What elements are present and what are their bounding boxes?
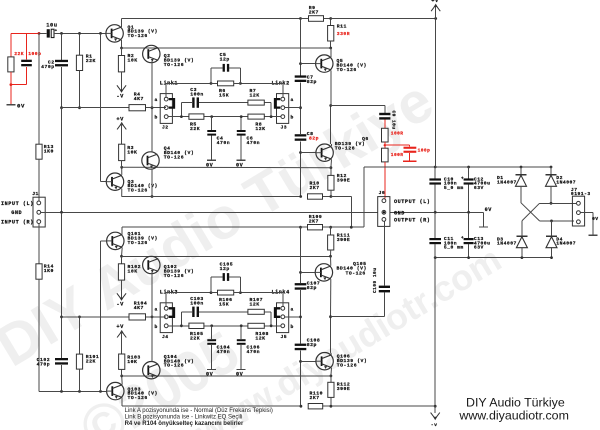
node R104 c102 tap [60,316,63,319]
capacitor C5 12p [211,52,240,83]
wire c3 left drop [180,103,182,117]
wire J1 riser top [38,33,40,144]
svg-text:0V: 0V [17,102,25,109]
svg-text:-V: -V [116,302,124,308]
capacitor C4 470n [207,117,230,160]
resistor R5 22K [189,114,204,132]
node r7 tap [270,324,273,327]
svg-text:1N4007: 1N4007 [497,179,517,185]
link jumper right [275,308,280,317]
node R1 bottom [78,106,81,109]
node J3 mid tap [299,106,302,109]
svg-text:470p: 470p [37,361,51,367]
svg-text:10K: 10K [127,359,137,365]
wire R110 rail [122,405,435,407]
wire c3 left drop [180,312,182,326]
text link label L [160,290,178,296]
svg-text:4K7: 4K7 [134,305,144,311]
wire Q5 collector [330,48,332,57]
node -V C13 [467,256,470,259]
node r5 rail c3tap [180,115,183,118]
wire Q6 collector [331,144,333,146]
wire riser to Q101 [101,241,107,392]
wire R10 rail to link [331,196,351,198]
svg-text:390E: 390E [337,386,351,392]
svg-text:1N4007: 1N4007 [556,179,576,185]
wire Q3 collector [121,167,123,175]
transistor Q3 BD140 [106,173,158,194]
svg-text:100n: 100n [190,301,204,307]
svg-text:R4 ve R104 önyükselteç kazancı: R4 ve R104 önyükselteç kazancını belirle… [125,421,244,427]
node R12 bottom junction [330,195,333,198]
svg-text:TO-126: TO-126 [128,33,148,39]
resistor R10 2K7 [308,180,323,199]
wire Q3e corner [121,196,123,198]
wire r7 right drop [264,312,271,326]
svg-text:+: + [461,176,464,181]
svg-text:+V: +V [116,116,124,122]
svg-text:J5: J5 [281,334,288,340]
node J5 mid tap [299,316,302,319]
wire R11 bottom [330,41,332,48]
ground 0V (input filter) [7,102,25,109]
svg-text:TO-126: TO-126 [128,240,148,246]
wire +V mid rail [364,166,551,168]
wire Q6 emitter [330,159,333,167]
node R104 r101 tap [78,316,81,319]
transistor Q106 BD139 [316,353,367,370]
svg-text:12K: 12K [250,92,260,98]
resistor 22K (red mod) [8,51,24,72]
capacitor C9 10u [379,111,396,130]
ground 0V psu [479,207,492,227]
wire C9 link [331,106,385,113]
svg-text:a: a [155,307,158,312]
svg-text:10u: 10u [46,22,57,28]
capacitor C107 82p [295,280,321,291]
node +V C10 [434,166,437,169]
wire red between 100R [384,142,386,148]
wire bridge ac1 [522,202,552,236]
wire bridge ac2 [521,203,574,236]
wire +V top rail right [331,18,436,20]
wire +V link drop [350,197,352,228]
transistor Q6 BD139 [316,136,369,162]
ground 0V c4 [206,370,216,378]
resistor R107 12K [248,297,264,314]
resistor R6 15K [211,81,240,98]
wire input L rail [39,32,106,34]
svg-text:10K: 10K [128,269,138,275]
svg-text:1N4007: 1N4007 [497,241,517,247]
resistor R4 4K7 [129,92,146,111]
svg-text:J4: J4 [162,334,169,340]
wire Q2 emitter [151,61,153,108]
decor [187,238,508,430]
svg-text:C9 10u: C9 10u [391,111,397,130]
wire R10 rail [122,196,331,198]
node R101 tap [78,390,81,393]
svg-text:Link B pozisyonunda ise - Link: Link B pozisyonunda ise - Linkwitz EQ Se… [125,414,243,420]
svg-text:82p: 82p [307,285,317,291]
wire Q5 emitter chain [330,70,333,144]
svg-text:63V: 63V [474,185,484,191]
capacitor C104 470n [207,326,230,369]
svg-text:INPUT (L): INPUT (L) [1,201,34,207]
svg-text:12p: 12p [220,57,230,63]
resistor R103 10K [119,354,141,369]
svg-text:J3: J3 [281,125,288,131]
node R110 c-col [300,405,303,408]
resistor R9 2K7 [309,5,324,21]
node R111 bottom junction [329,255,332,258]
svg-text:10K: 10K [127,149,137,155]
wire +V bottom rail [122,226,300,228]
wire R103 bottom [121,369,123,376]
transistor Q102 BD139 [143,256,195,279]
ground 0V c6 [236,160,246,168]
svg-text:GND: GND [11,210,22,216]
node riser tap b [99,390,102,393]
svg-text:470n: 470n [217,140,231,146]
node +V link join [350,226,353,229]
wire input R rail [39,390,106,392]
diode D4 1N4007 [546,236,576,259]
resistor R101 22K [76,317,99,392]
wire -V rail [435,257,551,259]
transistor Q4 BD140 [142,146,194,170]
decor [69,319,250,430]
wire C8 down [300,141,302,196]
node Q103 emitter junction [120,375,123,378]
ground 0V c4 [206,160,216,168]
svg-text:TO-126: TO-126 [335,146,355,152]
node c6 tap [240,115,243,118]
wire j3 mid stub [285,107,301,109]
text link label L [160,80,178,86]
resistor R112 390E [328,376,351,398]
svg-text:12K: 12K [255,335,265,341]
power +V (R3) [116,116,126,144]
svg-text:330R: 330R [337,31,350,37]
wire (red input top) [11,32,39,34]
wire R104 rail [62,316,167,318]
wire rail Q1e to R11 [122,47,331,49]
node C7 column top [299,17,302,20]
node Q6 base tap [299,151,302,154]
capacitor C102 470p [37,317,68,392]
node input junction [38,32,41,35]
svg-text:470n: 470n [247,349,261,355]
connector J3 (link) [277,94,294,131]
wire R13 to J1 [38,159,40,200]
node fb right [239,82,242,85]
wire rail Q3c to Q6e [122,166,331,168]
wire Q106 base stub [301,360,317,362]
power -V (R2) [116,72,126,100]
node fb left [210,291,213,294]
wire Q5 base stub [301,63,316,65]
resistor R2 10K [118,48,137,72]
svg-text:DIY Audio Türkiye: DIY Audio Türkiye [466,395,565,409]
svg-text:22K: 22K [190,335,200,341]
svg-text:12K: 12K [255,126,265,132]
node c4 tap [210,324,213,327]
text link label R [272,290,290,296]
svg-text:OUTPUT (R): OUTPUT (R) [394,218,430,224]
svg-text:R11: R11 [337,23,347,29]
connector J7 0191-3 [571,187,591,226]
resistor R106 15K [211,290,240,307]
svg-text:-V: -V [116,94,124,100]
node C102 tap [60,390,63,393]
ground red zobel [403,160,417,162]
svg-text:22K: 22K [14,51,24,57]
svg-text:470n: 470n [247,140,261,146]
svg-text:J1: J1 [32,191,39,197]
node gnd spine [60,211,63,214]
svg-text:b: b [291,115,294,121]
node Q5 base tap [299,62,302,65]
resistor R111 390E [328,227,351,250]
svg-text:82p: 82p [307,79,317,85]
wire R109 wires [301,226,331,228]
capacitor C106 470n [237,326,260,369]
wire (red cap drop) [26,33,28,59]
svg-text:INPUT (R): INPUT (R) [1,220,34,226]
svg-text:a: a [291,307,294,312]
svg-text:12K: 12K [250,302,260,308]
connector J6 output [378,190,431,226]
svg-text:TO-126: TO-126 [164,273,184,279]
wire Q3 emitter [121,189,123,197]
svg-text:100p: 100p [418,148,431,154]
capacitor C3 100n [181,87,248,108]
svg-text:Link A pozisyonunda ise - Norm: Link A pozisyonunda ise - Normal (Düz Fr… [125,408,273,414]
svg-text:TO-126: TO-126 [164,363,184,369]
node J4 mid junction [151,316,154,319]
wire gnd spine lower [61,212,63,317]
wire Q4 riser [151,108,153,152]
svg-text:470n: 470n [217,349,231,355]
node Q4 drop junction [151,195,154,198]
svg-text:b: b [155,115,158,121]
resistor R105 22K [189,323,204,341]
resistor R109 2K7 [308,214,323,230]
wire Q101 emitter [121,248,124,257]
link jumper left [169,99,174,108]
node fb left [210,82,213,85]
wire Q103 collector [121,398,123,407]
svg-text:0V: 0V [206,162,214,168]
wire Q106 emitter [330,368,333,376]
node R10 rail C-col [299,195,302,198]
svg-text:+V: +V [431,0,439,4]
wire (red cap lower) [26,67,28,85]
svg-text:www.diyaudiotr.com: www.diyaudiotr.com [458,408,569,422]
capacitor C108 82p [295,338,321,351]
node red tap [384,144,386,146]
wire Q103 emitter [121,376,124,385]
svg-text:0191-3: 0191-3 [571,191,591,197]
wire Q102/Q104 mid drop [151,274,153,317]
wire red zobel down [409,153,411,161]
node riser tap [99,32,102,35]
resistor R7 12K [248,88,264,105]
resistor R110 2K7 [308,391,323,409]
svg-text:C109 10u: C109 10u [372,268,378,293]
wire rail Q103e [122,375,331,377]
decor [0,68,444,379]
svg-text:2K7: 2K7 [310,395,320,401]
node red junction [10,83,13,86]
wire R112 bottom [330,397,332,406]
node fb right [239,291,242,294]
transistor Q104 BD140 [143,354,195,379]
svg-text:0V: 0V [206,372,214,378]
resistor R3 10K [119,144,138,160]
wire R3 bottom [121,161,123,168]
node r5 rail c3tap [180,324,183,327]
svg-text:2K7: 2K7 [310,185,320,191]
svg-text:b: b [291,324,294,330]
node Q1 emitter junction [120,47,123,50]
power -V (bottom) [431,406,440,428]
wire R111 bottom [330,250,332,256]
capacitor C11 100n [429,212,463,257]
power +V (top) [431,0,440,19]
svg-text:TO-126: TO-126 [164,154,184,160]
connector J1 input [1,191,45,227]
node R11 top [329,17,332,20]
svg-text:5_0 mm: 5_0 mm [444,185,464,191]
svg-text:100R: 100R [391,131,404,137]
wire R4 rail [62,107,167,109]
svg-text:TO-126: TO-126 [337,363,357,369]
svg-text:TO-126: TO-126 [164,62,184,68]
resistor R12 390E [328,168,351,191]
node Q105 base tap [299,271,302,274]
wire C108 down [300,351,302,407]
transistor Q2 BD139 [143,45,195,68]
svg-text:100n: 100n [190,91,204,97]
svg-text:OUTPUT (L): OUTPUT (L) [394,199,430,205]
node R111 top [329,226,332,229]
diode D1 1N4007 [497,167,527,203]
svg-text:b: b [155,324,158,330]
link jumper left [169,308,174,317]
capacitor C8 82p [295,131,319,142]
svg-text:2K7: 2K7 [309,10,319,16]
text note line2 [125,414,243,420]
wire Q105 base stub [301,271,316,273]
node +V D2 [550,166,553,169]
svg-text:a: a [155,98,158,103]
capacitor 100p (red zobel) [404,147,431,154]
svg-text:TO-126: TO-126 [337,67,357,73]
svg-text:10K: 10K [128,58,138,64]
svg-text:63V: 63V [474,245,484,251]
svg-text:82p: 82p [309,135,319,141]
node +V C12 [467,166,470,169]
node C109 link [329,315,332,318]
wire R9 right [324,18,331,20]
wire Q106 collector [331,353,332,355]
transistor Q5 BD140 [316,55,367,73]
node +V D1 [520,166,523,169]
connector J2 (link) [155,94,173,131]
diode D2 1N4007 [546,167,577,203]
ground 0V c6 [236,370,246,378]
wire r5 rail [169,325,281,327]
svg-text:a: a [291,98,294,103]
svg-text:TO-126: TO-126 [128,395,148,401]
node r7 tap [270,115,273,118]
svg-text:390E: 390E [337,177,351,183]
wire gnd spine upper [61,108,63,213]
connector J5 (link) [277,303,294,340]
svg-text:1K0: 1K0 [44,148,54,154]
wire red to 100R [384,120,386,129]
wire -V long drop [434,258,436,407]
node -V C11 [434,256,437,259]
svg-text:22K: 22K [86,58,96,64]
wire out R drop [383,222,385,286]
connector J4 (link) [155,303,173,340]
capacitor 10u (input) [46,22,57,37]
svg-text:15K: 15K [219,302,229,308]
wire bridge to J7 pin1 [551,202,576,204]
wire Q104 riser [151,317,153,362]
svg-text:0V: 0V [485,207,493,213]
wire +V loop riser [363,167,365,227]
svg-text:0V: 0V [236,162,244,168]
svg-text:22K: 22K [190,126,200,132]
capacitor C13 4700u [461,212,490,257]
resistor 100R (red mod upper) [382,128,404,142]
svg-text:4K7: 4K7 [134,96,144,102]
node Q106 base tap [299,360,302,363]
capacitor C2 470p [41,33,68,107]
resistor R104 4K7 [129,301,147,320]
text note line3 [125,421,244,427]
wire Q102 emitter [151,272,153,317]
node c6 tap [240,324,243,327]
wire C107 column upper [300,227,302,283]
wire (red R drop) [10,33,12,57]
ground 0V J7 [588,216,598,236]
resistor R14 1K0 [36,224,54,391]
wire C7 to J3 tap [300,83,302,135]
svg-text:82p: 82p [307,342,317,348]
svg-text:1K0: 1K0 [44,268,54,274]
capacitor 100p (red mod) [21,51,41,66]
node R112 bottom junction [330,405,333,408]
svg-text:22K: 22K [86,359,96,365]
svg-text:390E: 390E [337,237,351,243]
wire gnd rail [41,211,483,213]
wire Q105 collector [330,256,332,265]
transistor Q103 BD140 [107,382,158,401]
text url [458,408,569,422]
capacitor C12 4700u [461,167,490,212]
wire r7 right drop [264,103,271,117]
svg-text:5_0 mm: 5_0 mm [444,245,464,251]
wire +V bottom rail right [331,226,364,228]
node -V riser join [434,405,437,408]
svg-text:-v: -v [431,423,438,428]
svg-text:TO-126: TO-126 [346,270,366,276]
